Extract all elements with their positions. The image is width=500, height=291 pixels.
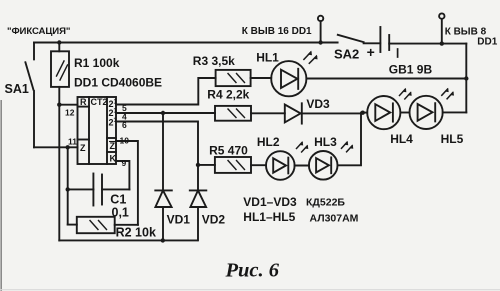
svg-text:SA1: SA1 (5, 82, 29, 96)
resistor R5 (215, 157, 251, 173)
wire left long vertical to bottom rail (58, 105, 60, 241)
svg-text:11: 11 (68, 137, 77, 147)
terminal к выв 8 (439, 13, 444, 18)
wire VD1 vertical upper (162, 113, 164, 190)
diode VD2 (190, 190, 207, 207)
scan artifact left edge (0, 100, 2, 291)
LED HL1 (271, 51, 317, 97)
svg-text:DD1 CD4060BE: DD1 CD4060BE (74, 76, 162, 90)
svg-text:C1: C1 (110, 192, 126, 206)
wire junction to HL4 (363, 112, 368, 114)
wire R5 left lead (198, 164, 215, 166)
diode VD3 (285, 103, 302, 123)
battery extra dash (397, 49, 399, 57)
svg-text:HL1–HL5: HL1–HL5 (243, 210, 295, 224)
wire battery to right corner (389, 43, 466, 45)
wire pin 9 lead (116, 161, 129, 189)
svg-text:КД522Б: КД522Б (306, 196, 345, 208)
capacitor C1 (93, 174, 102, 206)
svg-text:HL3: HL3 (314, 135, 337, 149)
svg-text:HL1: HL1 (256, 51, 279, 65)
node junction R1 top (57, 40, 61, 44)
terminal к выв 16 (318, 16, 323, 21)
wire terminal 8 drop (441, 19, 443, 44)
wire R5 right lead (251, 164, 266, 166)
wire VD3 right lead (302, 112, 363, 114)
wire pin 10 lead (116, 141, 138, 225)
wire R4 right lead (251, 112, 285, 114)
svg-text:VD3: VD3 (306, 97, 330, 111)
svg-text:Z: Z (110, 141, 116, 151)
svg-text:DD1: DD1 (477, 37, 497, 48)
svg-text:R: R (80, 97, 87, 107)
svg-text:K: K (110, 154, 117, 164)
wire right vertical rail (465, 44, 467, 113)
node C1 left junction (66, 187, 70, 191)
wire bottom rail (59, 239, 196, 241)
wire HL3 right lead and riser (338, 113, 362, 166)
svg-text:+: + (367, 44, 375, 60)
wire terminal 16 drop (320, 21, 322, 42)
node junction pin12/R1/left rail (57, 103, 61, 107)
resistor R2 (77, 217, 115, 233)
svg-text:VD2: VD2 (202, 213, 226, 227)
wire HL1 right lead (306, 78, 466, 80)
svg-text:VD1: VD1 (167, 213, 191, 227)
IC DD1 CD4060BE box (78, 97, 117, 164)
svg-text:R5 470: R5 470 (209, 143, 248, 157)
wire HL5 right lead (443, 111, 467, 113)
switch SA2 (338, 35, 364, 42)
wire HL4 to HL5 (400, 112, 409, 114)
LED HL4 (367, 88, 412, 129)
resistor R1 (51, 51, 69, 87)
svg-text:R3 3,5k: R3 3,5k (193, 54, 235, 68)
node terminal 16 junction (318, 40, 322, 44)
resistor R3 (216, 70, 251, 86)
svg-text:10: 10 (120, 136, 130, 146)
node HL4 row junction (361, 111, 365, 115)
svg-text:R2 10k: R2 10k (116, 226, 156, 240)
wire C1 left lead (68, 188, 94, 190)
wire R1 bottom to pin12 junction (58, 87, 60, 105)
svg-text:К ВЫВ 8: К ВЫВ 8 (445, 26, 487, 37)
wire HL2 to HL3 (295, 165, 309, 167)
svg-text:SA2: SA2 (334, 46, 359, 61)
node HL1/right-rail junction (464, 76, 468, 80)
wire top-left corner drop to SA1 (33, 43, 35, 60)
wire R2 left lead (68, 224, 77, 226)
battery GB1 short plate (388, 35, 390, 50)
svg-text:Z: Z (80, 143, 86, 153)
svg-text:GB1 9B: GB1 9B (389, 62, 433, 76)
switch SA1 (25, 62, 33, 89)
wire pin 12 horizontal (59, 104, 77, 106)
wire SA2 to battery (364, 42, 381, 44)
svg-text:9: 9 (122, 158, 127, 168)
svg-text:0,1: 0,1 (112, 205, 129, 219)
node pin11/C1 branch junction (66, 145, 70, 149)
svg-text:HL5: HL5 (441, 132, 464, 146)
svg-text:Рис. 6: Рис. 6 (225, 260, 280, 282)
wire R1 top stub (58, 43, 60, 52)
wire VD1 vertical lower (162, 207, 164, 240)
wire R3 right lead (251, 77, 272, 79)
node VD1 bottom junction (161, 238, 165, 242)
svg-text:HL4: HL4 (390, 132, 413, 146)
svg-text:"ФИКСАЦИЯ": "ФИКСАЦИЯ" (7, 26, 70, 37)
node pin4/VD1 junction (161, 111, 165, 115)
svg-text:VD1–VD3: VD1–VD3 (243, 195, 297, 209)
wire C1 right lead (102, 188, 129, 190)
wire pin 6 lead down (116, 122, 198, 191)
svg-text:12: 12 (65, 107, 75, 117)
wire pin 5 lead up to R3 (116, 78, 216, 105)
svg-text:R4 2,2k: R4 2,2k (207, 88, 249, 102)
LED HL3 (309, 141, 353, 180)
LED HL5 (410, 88, 455, 129)
resistor R4 (215, 106, 251, 121)
node R5 branch junction (196, 163, 200, 167)
wire pin 11 horizontal (34, 146, 78, 148)
wire C1 branch vertical (67, 147, 69, 224)
wire top rail left section (34, 42, 338, 44)
svg-text:К ВЫВ 16 DD1: К ВЫВ 16 DD1 (242, 26, 312, 37)
svg-text:6: 6 (122, 120, 127, 130)
wire SA1 bottom down to pin 11 row (33, 91, 35, 147)
node terminal 8 junction (440, 41, 444, 45)
svg-text:АЛ307АМ: АЛ307АМ (310, 213, 359, 225)
scan artifact bottom edge (0, 289, 500, 291)
LED HL2 (266, 141, 308, 180)
svg-text:HL2: HL2 (257, 135, 280, 149)
battery GB1 long plate (379, 27, 381, 52)
svg-text:CT2: CT2 (91, 97, 108, 107)
svg-text:R1 100k: R1 100k (74, 56, 120, 70)
wire VD2 vertical lower (197, 207, 199, 240)
wire pin 4 lead to R4 (116, 112, 215, 114)
wire R2 right lead (115, 224, 138, 226)
diode VD1 (155, 190, 172, 207)
